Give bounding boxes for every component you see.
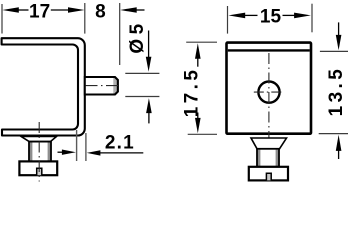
knob slot <box>37 168 42 175</box>
svg-text:17: 17 <box>29 1 50 22</box>
screw shank (front) <box>257 149 279 167</box>
vertical centerline <box>268 53 270 184</box>
center hole <box>258 82 279 103</box>
knurled knob <box>19 161 57 175</box>
svg-text:13.5: 13.5 <box>326 66 347 117</box>
dimension Ø5 <box>125 19 159 123</box>
knob (front) <box>249 167 288 181</box>
clamp body C-profile (side view) <box>2 38 85 135</box>
hole horizontal centerline <box>254 91 284 93</box>
dimension 17 <box>2 1 85 33</box>
top jaw seam line <box>228 49 310 51</box>
svg-text:8: 8 <box>95 1 106 22</box>
body front rectangle <box>227 43 312 134</box>
screw shank <box>29 142 51 162</box>
screw centerline <box>38 122 40 182</box>
screw trapezoid foot (front) <box>251 138 287 149</box>
dimension 2.1 <box>58 130 144 161</box>
pin centerline <box>86 85 119 87</box>
dimension 17.5 <box>181 42 217 134</box>
svg-text:Ø5: Ø5 <box>127 19 148 53</box>
pin (threaded stud) on right face <box>85 77 118 95</box>
screw trapezoid foot under bottom flange <box>21 136 57 141</box>
dimension 8 <box>85 1 145 65</box>
svg-text:15: 15 <box>260 7 282 28</box>
dimension 13.5 <box>319 22 348 159</box>
dimension 15 <box>228 4 313 34</box>
svg-text:2.1: 2.1 <box>105 133 135 154</box>
knob slot (front) <box>266 173 271 180</box>
svg-text:17.5: 17.5 <box>181 67 202 118</box>
